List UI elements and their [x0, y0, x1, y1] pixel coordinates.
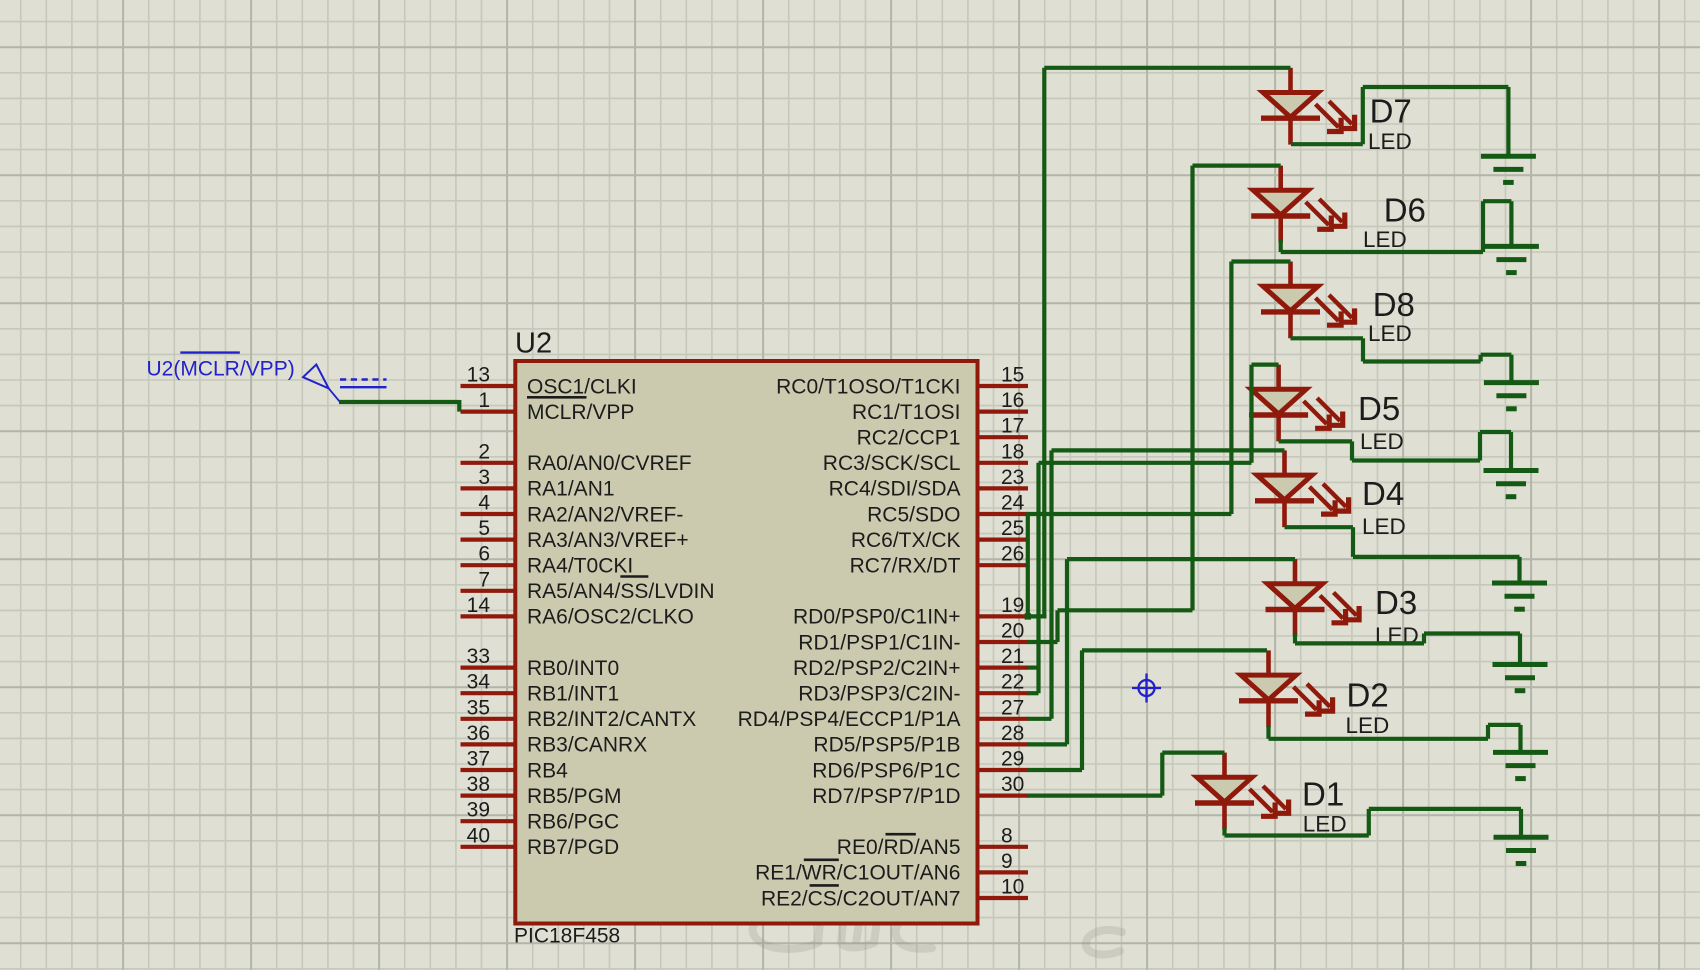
svg-text:33: 33: [467, 645, 490, 668]
wire D3 staple top: [1424, 631, 1520, 635]
pin 36 (RB3/CANRX) stub: [461, 742, 516, 746]
svg-text:RE0/RD/AN5: RE0/RD/AN5: [837, 836, 961, 859]
U2 chip body PIC18F458: [515, 361, 977, 924]
pin 18 (RC3/SCK/SCL) stub: [978, 461, 1029, 465]
svg-text:RD4/PSP4/ECCP1/P1A: RD4/PSP4/ECCP1/P1A: [738, 708, 961, 731]
wire D2 staple up: [1486, 725, 1490, 739]
wire pin19 to D7/D8 junction: [1027, 614, 1047, 618]
wire D5 riser upper: [1249, 365, 1253, 463]
wire D2 ground lead: [1518, 725, 1522, 753]
svg-text:RB4: RB4: [527, 759, 568, 782]
svg-text:24: 24: [1001, 492, 1025, 515]
wire D3 anode feed: [1067, 557, 1295, 561]
svg-text:39: 39: [467, 799, 490, 822]
SS overline: [620, 575, 648, 578]
svg-text:25: 25: [1001, 517, 1024, 540]
crosshair marker: [1132, 674, 1161, 703]
pin 40 (RB7/PGD) stub: [461, 845, 516, 849]
pin 7 (RA5/AN4/SS/LVDIN) stub: [461, 589, 516, 593]
pin 22 (RD3/PSP3/C2IN-) stub: [978, 691, 1029, 695]
wire D1 anode feed: [1162, 750, 1224, 754]
svg-text:RC4/SDI/SDA: RC4/SDI/SDA: [829, 478, 961, 501]
LED D1: [1195, 753, 1289, 830]
wire D2 cathode drop: [1266, 726, 1270, 739]
svg-text:28: 28: [1001, 722, 1024, 745]
svg-text:4: 4: [478, 492, 490, 515]
svg-text:RC5/SDO: RC5/SDO: [867, 503, 960, 526]
wire D8 riser upper: [1229, 262, 1233, 515]
wire D5 riser lower: [1036, 463, 1040, 693]
ground D3: [1493, 662, 1548, 667]
pin 4 (RA2/AN2/VREF-) stub: [461, 512, 516, 516]
wire D4 anode feed: [1052, 448, 1285, 452]
wire D1 riser: [1160, 753, 1164, 796]
svg-text:7: 7: [478, 568, 490, 591]
wire D5 return horizontal: [1352, 458, 1480, 462]
wire pin20 jog: [1055, 610, 1059, 642]
wire pin29 horizontal: [1027, 768, 1082, 772]
wire D5 staple top: [1480, 430, 1511, 434]
svg-text:38: 38: [467, 773, 490, 796]
wire D2 staple top: [1488, 723, 1521, 727]
svg-text:RB3/CANRX: RB3/CANRX: [527, 734, 647, 757]
svg-text:13: 13: [467, 364, 490, 387]
svg-text:29: 29: [1001, 748, 1024, 771]
pin 10 (RE2/CS/C2OUT/AN7) stub: [978, 896, 1029, 900]
LED D6: [1251, 166, 1345, 243]
wire D5 row18 horizontal: [1039, 461, 1252, 465]
pin 34 (RB1/INT1) stub: [461, 691, 516, 695]
svg-text:D2: D2: [1347, 677, 1389, 714]
wire D3 return horizontal: [1295, 641, 1424, 645]
wire D7 return top: [1363, 85, 1509, 89]
svg-text:23: 23: [1001, 466, 1024, 489]
pin 9 (RE1/WR/C1OUT/AN6) stub: [978, 870, 1029, 874]
wire D5 return jog down: [1350, 441, 1354, 460]
terminal solid mark: [340, 386, 387, 388]
svg-text:RA2/AN2/VREF-: RA2/AN2/VREF-: [527, 503, 683, 526]
pin 28 (RD5/PSP5/P1B) stub: [978, 742, 1029, 746]
svg-text:RD7/PSP7/P1D: RD7/PSP7/P1D: [812, 785, 960, 808]
wire D8 staple up: [1478, 355, 1482, 362]
RD overline: [885, 833, 915, 836]
terminal marker triangle: [303, 365, 329, 389]
pin 19 (RD0/PSP0/C1IN+) stub: [978, 614, 1029, 618]
svg-text:LED: LED: [1346, 713, 1390, 738]
ground D7: [1481, 154, 1536, 159]
LED D7: [1261, 68, 1355, 145]
ground D1: [1494, 835, 1549, 840]
wire pin30 horizontal: [1027, 793, 1162, 797]
wire D7 ground lead: [1506, 87, 1510, 156]
svg-text:6: 6: [478, 543, 490, 566]
svg-text:1: 1: [478, 389, 490, 412]
wire D6 return horizontal: [1281, 250, 1483, 254]
svg-text:RB0/INT0: RB0/INT0: [527, 657, 619, 680]
LED D8: [1261, 262, 1355, 339]
svg-text:8: 8: [1001, 824, 1013, 847]
pin 1 (MCLR/VPP) stub: [461, 410, 516, 414]
svg-text:PIC18F458: PIC18F458: [514, 925, 620, 948]
wire D4 return horizontal: [1353, 555, 1520, 559]
ground D6: [1484, 244, 1539, 249]
pin 6 (RA4/T0CKI) stub: [461, 563, 516, 567]
svg-text:RB5/PGM: RB5/PGM: [527, 785, 622, 808]
svg-text:RA1/AN1: RA1/AN1: [527, 478, 615, 501]
WR overline: [804, 858, 839, 861]
wire D8 cathode horizontal: [1291, 336, 1364, 340]
wire D8 row24 horizontal: [1027, 512, 1232, 516]
svg-text:OSC1/CLKI: OSC1/CLKI: [527, 375, 637, 398]
ground D5: [1484, 468, 1539, 473]
svg-text:MCLR/VPP: MCLR/VPP: [527, 401, 634, 424]
wire D3 ground lead: [1518, 634, 1522, 665]
pin 30 (RD7/PSP7/P1D) stub: [978, 793, 1029, 797]
wire D6 staple top: [1483, 199, 1511, 203]
svg-text:RD2/PSP2/C2IN+: RD2/PSP2/C2IN+: [793, 657, 961, 680]
pin 39 (RB6/PGC) stub: [461, 819, 516, 823]
pin 13 (OSC1/CLKI) stub: [461, 384, 516, 388]
wire D7 riser: [1042, 68, 1046, 617]
pin 14 (RA6/OSC2/CLKO) stub: [461, 614, 516, 618]
wire D1 staple up: [1367, 809, 1371, 836]
svg-text:RB1/INT1: RB1/INT1: [527, 683, 619, 706]
ground D8: [1484, 380, 1539, 385]
wire D7 anode feed: [1044, 66, 1290, 70]
wire D3 cathode drop: [1293, 634, 1297, 643]
pin 38 (RB5/PGM) stub: [461, 793, 516, 797]
wire D5 staple up: [1478, 432, 1482, 461]
pin 20 (RD1/PSP1/C1IN-) stub: [978, 640, 1029, 644]
svg-text:D4: D4: [1362, 475, 1404, 512]
wire D8 anode feed: [1231, 259, 1290, 263]
svg-text:16: 16: [1001, 389, 1024, 412]
ground D4: [1492, 581, 1547, 586]
wire D6 anode feed: [1193, 164, 1281, 168]
U2(MCLR/VPP) overline: [180, 351, 239, 353]
svg-text:10: 10: [1001, 876, 1024, 899]
pin 27 (RD4/PSP4/ECCP1/P1A) stub: [978, 717, 1029, 721]
svg-text:RC0/T1OSO/T1CKI: RC0/T1OSO/T1CKI: [776, 375, 960, 398]
svg-text:U2: U2: [515, 328, 552, 360]
svg-text:RE2/CS/C2OUT/AN7: RE2/CS/C2OUT/AN7: [761, 887, 961, 910]
wire D6 staple up: [1481, 201, 1485, 252]
wire D5 ground lead: [1509, 432, 1513, 471]
svg-text:LED: LED: [1303, 811, 1347, 836]
svg-text:34: 34: [467, 671, 491, 694]
wire D6 riser: [1190, 166, 1194, 611]
svg-text:17: 17: [1001, 415, 1024, 438]
wire D3 riser: [1065, 559, 1069, 744]
svg-text:D6: D6: [1384, 192, 1426, 229]
LED D5: [1249, 365, 1343, 442]
CS overline: [810, 884, 839, 887]
wire D3 staple up: [1422, 634, 1426, 644]
wire pin22 horizontal: [1027, 691, 1039, 695]
svg-text:19: 19: [1001, 594, 1024, 617]
wire D1 return horizontal: [1225, 833, 1369, 837]
wire D4 return jog: [1351, 527, 1355, 557]
wire D8 staple top: [1481, 353, 1512, 357]
svg-text:3: 3: [478, 466, 490, 489]
svg-text:RD5/PSP5/P1B: RD5/PSP5/P1B: [813, 734, 960, 757]
svg-text:37: 37: [467, 748, 490, 771]
svg-text:U2(MCLR/VPP): U2(MCLR/VPP): [147, 358, 295, 381]
LED D3: [1266, 559, 1360, 636]
svg-text:RC3/SCK/SCL: RC3/SCK/SCL: [823, 452, 961, 475]
svg-text:RB7/PGD: RB7/PGD: [527, 836, 619, 859]
wire D1 cathode drop: [1222, 827, 1226, 836]
svg-text:40: 40: [467, 824, 490, 847]
svg-text:RA4/T0CKI: RA4/T0CKI: [527, 555, 633, 578]
svg-text:RE1/WR/C1OUT/AN6: RE1/WR/C1OUT/AN6: [755, 862, 960, 885]
wire D8 riser lower: [1026, 514, 1030, 616]
svg-text:RA5/AN4/SS/LVDIN: RA5/AN4/SS/LVDIN: [527, 580, 715, 603]
wire D7 return riser: [1361, 87, 1365, 144]
svg-text:RB6/PGC: RB6/PGC: [527, 811, 619, 834]
svg-text:22: 22: [1001, 671, 1024, 694]
svg-text:26: 26: [1001, 543, 1024, 566]
pin 17 (RC2/CCP1) stub: [978, 435, 1029, 439]
wire D8 return horizontal: [1363, 359, 1481, 363]
wire D4 riser: [1049, 450, 1053, 718]
pin 8 (RE0/RD/AN5) stub: [978, 845, 1029, 849]
pin 26 (RC7/RX/DT) stub: [978, 563, 1029, 567]
wire D8 return jog: [1361, 338, 1365, 361]
svg-text:RA0/AN0/CVREF: RA0/AN0/CVREF: [527, 452, 692, 475]
wire pin27 horizontal: [1027, 717, 1052, 721]
terminal dashed mark: [340, 378, 387, 380]
ground D2: [1493, 750, 1548, 755]
svg-text:35: 35: [467, 696, 490, 719]
wire D6 long horizontal: [1058, 608, 1193, 612]
svg-text:2: 2: [478, 440, 490, 463]
pin 5 (RA3/AN3/VREF+) stub: [461, 537, 516, 541]
svg-text:D5: D5: [1358, 390, 1400, 427]
svg-text:RC1/T1OSI: RC1/T1OSI: [852, 401, 961, 424]
pin 35 (RB2/INT2/CANTX) stub: [461, 717, 516, 721]
wire D2 return horizontal: [1269, 737, 1489, 741]
wire pin21 horizontal: [1027, 665, 1041, 669]
wire D7 cathode horizontal: [1291, 142, 1363, 146]
svg-text:RD1/PSP1/C1IN-: RD1/PSP1/C1IN-: [798, 631, 960, 654]
svg-text:15: 15: [1001, 364, 1024, 387]
svg-text:5: 5: [478, 517, 490, 540]
svg-text:27: 27: [1001, 696, 1024, 719]
svg-text:D1: D1: [1302, 775, 1344, 812]
svg-text:D7: D7: [1370, 93, 1412, 130]
wire D4 ground lead: [1517, 557, 1521, 583]
pin 29 (RD6/PSP6/P1C) stub: [978, 768, 1029, 772]
svg-text:RA6/OSC2/CLKO: RA6/OSC2/CLKO: [527, 606, 694, 629]
watermark: [753, 907, 1122, 954]
pin 2 (RA0/AN0/CVREF) stub: [461, 461, 516, 465]
svg-text:RC6/TX/CK: RC6/TX/CK: [851, 529, 961, 552]
svg-text:RD3/PSP3/C2IN-: RD3/PSP3/C2IN-: [798, 683, 960, 706]
pin 16 (RC1/T1OSI) stub: [978, 410, 1029, 414]
pin 25 (RC6/TX/CK) stub: [978, 537, 1029, 541]
pin 3 (RA1/AN1) stub: [461, 486, 516, 490]
svg-text:30: 30: [1001, 773, 1024, 796]
svg-text:LED: LED: [1362, 514, 1406, 539]
wire pin28 horizontal: [1027, 742, 1067, 746]
wire pin20 horizontal: [1027, 640, 1058, 644]
pin 33 (RB0/INT0) stub: [461, 665, 516, 669]
svg-text:D8: D8: [1373, 286, 1415, 323]
wire D5 cathode horizontal: [1279, 439, 1352, 443]
wire D2 riser: [1080, 650, 1084, 770]
svg-text:20: 20: [1001, 620, 1024, 643]
svg-text:RB2/INT2/CANTX: RB2/INT2/CANTX: [527, 708, 696, 731]
wire D1 staple top: [1369, 807, 1521, 811]
LED D4: [1255, 450, 1349, 527]
svg-text:14: 14: [467, 594, 491, 617]
wire D4 cathode horizontal: [1285, 525, 1354, 529]
svg-text:RC7/RX/DT: RC7/RX/DT: [850, 555, 961, 578]
wire D1 ground lead: [1519, 809, 1523, 837]
svg-text:LED: LED: [1368, 129, 1412, 154]
wire D2 anode feed: [1082, 648, 1267, 652]
MCLR overline: [527, 396, 586, 399]
svg-text:RD6/PSP6/P1C: RD6/PSP6/P1C: [812, 759, 960, 782]
svg-text:RA3/AN3/VREF+: RA3/AN3/VREF+: [527, 529, 689, 552]
svg-text:9: 9: [1001, 850, 1013, 873]
svg-text:18: 18: [1001, 440, 1024, 463]
svg-text:RD0/PSP0/C1IN+: RD0/PSP0/C1IN+: [793, 606, 961, 629]
svg-text:D3: D3: [1375, 584, 1417, 621]
pin 23 (RC4/SDI/SDA) stub: [978, 486, 1029, 490]
wire D8 ground lead: [1509, 355, 1513, 383]
wire MCLR horizontal: [339, 400, 460, 404]
pin 37 (RB4) stub: [461, 768, 516, 772]
pin 15 (RC0/T1OSO/T1CKI) stub: [978, 384, 1029, 388]
svg-text:RC2/CCP1: RC2/CCP1: [857, 427, 961, 450]
wire MCLR drop to pin 1: [457, 400, 461, 412]
junction pin19: [1025, 613, 1031, 619]
wire D6 ground lead: [1509, 201, 1513, 246]
svg-text:LED: LED: [1368, 321, 1412, 346]
svg-text:LED: LED: [1360, 429, 1404, 454]
wire D5 anode feed: [1252, 363, 1279, 367]
wire D6 cathode drop: [1279, 240, 1283, 252]
LED D2: [1239, 650, 1333, 727]
pin 24 (RC5/SDO) stub: [978, 512, 1029, 516]
svg-text:21: 21: [1001, 645, 1024, 668]
pin 21 (RD2/PSP2/C2IN+) stub: [978, 665, 1029, 669]
svg-text:LED: LED: [1363, 227, 1407, 252]
svg-text:36: 36: [467, 722, 490, 745]
